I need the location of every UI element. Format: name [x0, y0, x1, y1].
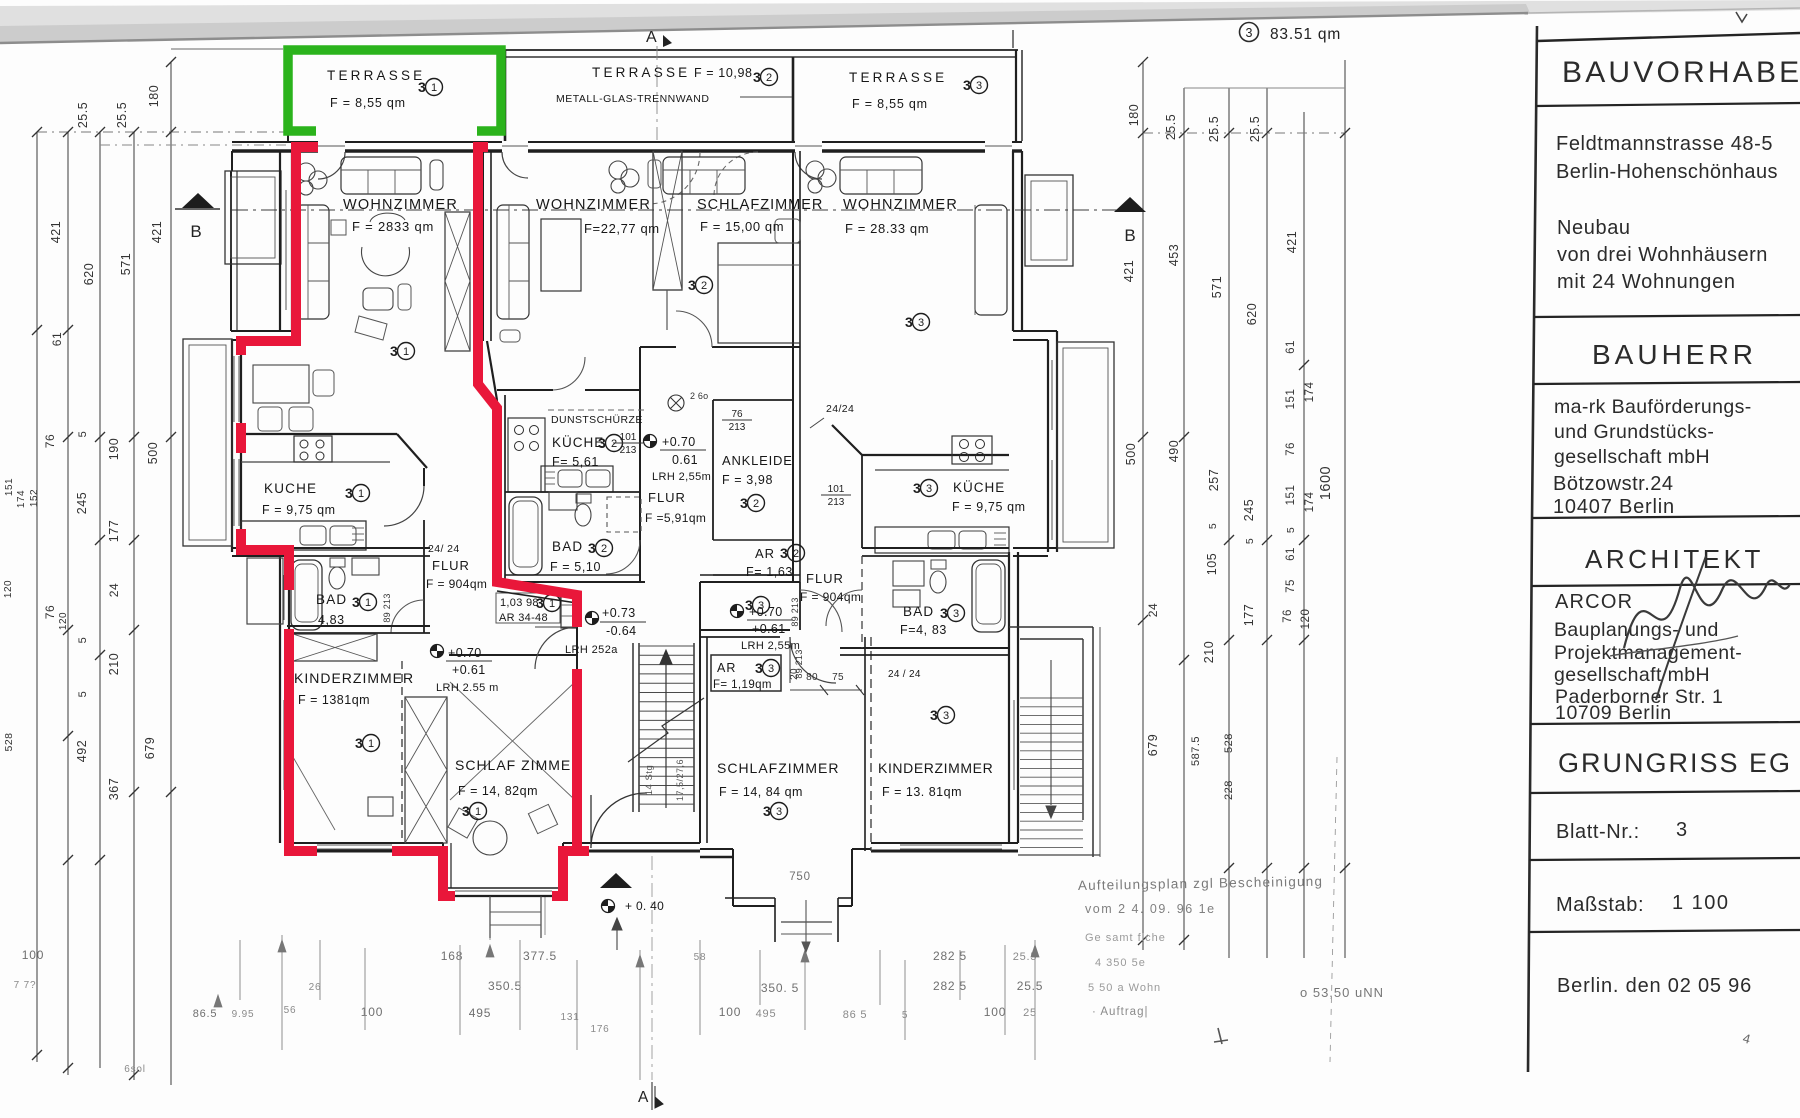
svg-text:KÜCHE: KÜCHE	[552, 435, 604, 450]
bext12	[879, 950, 881, 1005]
svg-text:3: 3	[753, 69, 761, 85]
apt1-stair bottom wall inner	[563, 850, 700, 853]
svg-text:495: 495	[756, 1008, 777, 1020]
wall kz1-sz1 dashed	[401, 661, 403, 843]
wz1 sofa div1	[367, 170, 369, 194]
svg-text:174: 174	[16, 490, 27, 508]
stair tread 9	[639, 729, 694, 731]
wz1 plant c3	[299, 181, 313, 195]
svg-text:3: 3	[1676, 819, 1688, 841]
right jog wall lower a	[1013, 547, 1057, 549]
svg-text:213: 213	[729, 422, 746, 433]
apt1 bottom window a2	[317, 848, 392, 850]
wz1 sofa left div1	[308, 242, 329, 244]
dim 101-213 flur2	[613, 432, 643, 456]
stair tread 3	[639, 673, 694, 675]
svg-text:2: 2	[753, 498, 759, 510]
building top wall inner seg3	[822, 149, 985, 152]
flur3 west wall	[799, 582, 801, 630]
rstair right rail	[1082, 639, 1084, 820]
circled 3 corridor	[745, 597, 770, 614]
tick r21	[1299, 863, 1309, 873]
circled 2 kueche2	[598, 435, 623, 452]
svg-text:24: 24	[1146, 603, 1160, 617]
rstair tread 3	[1020, 723, 1083, 725]
title block line below 10407 Berlin	[1532, 516, 1800, 518]
right window mid 2	[1051, 460, 1053, 540]
kz3 bottom window 2	[900, 848, 1002, 850]
right jog wall a	[1013, 330, 1057, 332]
svg-text:3: 3	[588, 540, 596, 556]
bad2 door arc	[606, 540, 640, 574]
wz1 sofa left line	[307, 205, 309, 319]
bad3 door arc	[826, 590, 862, 626]
terrace 1 left wall	[287, 50, 289, 141]
svg-text:Projektmanagement-: Projektmanagement-	[1554, 642, 1742, 664]
sz3 top wall a	[700, 629, 790, 631]
wz2 plant c3	[611, 179, 625, 193]
stove1 c2	[316, 440, 324, 448]
bad1 east wall	[423, 556, 425, 633]
svg-text:177: 177	[1242, 604, 1256, 626]
circled 2 ar2	[780, 545, 805, 562]
circled 1 wz1	[390, 343, 415, 360]
kueche3 west wall	[861, 455, 863, 548]
svg-text:mit 24 Wohnungen: mit 24 Wohnungen	[1557, 271, 1736, 293]
left loggia window bay inner	[231, 177, 275, 258]
tick l9	[63, 432, 73, 442]
svg-text:76: 76	[1285, 442, 1297, 456]
apt1 entry leaf	[535, 626, 577, 628]
rstair tread 9	[1020, 776, 1083, 778]
rstair tread 0	[1020, 697, 1083, 699]
tick l19	[129, 535, 139, 545]
apt1 bay left wall	[442, 843, 444, 896]
left balcony outline inner	[189, 345, 226, 540]
building top wall inner seg1	[345, 149, 502, 152]
rstair tread 5	[1020, 741, 1083, 743]
svg-text:3: 3	[740, 495, 748, 511]
svg-text:Bötzowstr.24: Bötzowstr.24	[1553, 473, 1674, 495]
svg-text:3: 3	[976, 80, 982, 92]
level symbol apt1	[431, 645, 444, 658]
loggia chair3	[313, 370, 334, 396]
rstair tread 7	[1020, 759, 1083, 761]
tick r2	[1179, 128, 1189, 138]
wz2 south wall b	[585, 389, 640, 391]
svg-text:76: 76	[731, 409, 743, 420]
bad3 sink	[893, 590, 920, 607]
bext17	[489, 896, 491, 940]
stove2 c3	[515, 442, 524, 451]
hw mark 1	[1214, 1028, 1228, 1044]
sz1 chair1	[448, 808, 478, 838]
left jog wall lower b	[232, 555, 289, 557]
wz2 sofa top	[663, 157, 745, 194]
title block line below Massstab	[1529, 930, 1800, 932]
flur3 2424 leader	[810, 418, 824, 428]
terrace door arc apt2	[502, 152, 528, 178]
section B left arrow	[182, 193, 214, 208]
stair tread 13	[639, 766, 694, 768]
bext11	[804, 945, 806, 1030]
terrace door arc apt2b dashed	[648, 152, 700, 204]
flur1 east wall	[423, 520, 425, 556]
svg-text:76: 76	[43, 605, 57, 619]
section B right arrow	[1114, 197, 1146, 212]
svg-text:421: 421	[150, 221, 164, 243]
bad3 west wall dashed	[861, 556, 863, 648]
stair tread 1	[639, 654, 694, 656]
svg-text:25.5: 25.5	[1207, 116, 1221, 142]
dim line right x1229	[1228, 88, 1230, 958]
svg-text:500: 500	[146, 442, 160, 464]
level symbol entrance	[602, 900, 615, 913]
svg-text:AR 34-48: AR 34-48	[499, 612, 548, 624]
sz3 door arc	[790, 637, 836, 683]
small mark top right	[1736, 12, 1747, 22]
kueche3 south wall a	[862, 547, 1009, 549]
svg-text:KINDERZIMMER: KINDERZIMMER	[878, 760, 993, 776]
dim line right x1267	[1266, 88, 1268, 958]
svg-text:LRH 2.55 m: LRH 2.55 m	[436, 682, 499, 694]
bad2 south wall b	[505, 581, 645, 583]
kz3 top wall b	[840, 654, 1009, 656]
dim line right x1143	[1142, 62, 1144, 950]
left jog wall lower a	[232, 547, 289, 549]
terrace 3 right wall inner	[1021, 50, 1023, 141]
stair tread 2	[639, 664, 694, 666]
svg-text:176: 176	[590, 1024, 609, 1035]
stair left rail a	[632, 643, 634, 812]
apt1 bay left wall2	[450, 843, 452, 888]
tick l14	[63, 855, 73, 865]
svg-text:1: 1	[431, 82, 437, 94]
bad3 bathtub	[972, 560, 1005, 632]
sz3 door leaf	[789, 637, 791, 683]
svg-text:+0.73: +0.73	[602, 606, 636, 620]
right facade mid inner	[1047, 340, 1049, 552]
apt1 bay front inner	[443, 895, 563, 897]
bad2 shower dashed	[607, 497, 641, 532]
section line BB	[232, 209, 1143, 211]
left room wall upper inner	[291, 151, 293, 331]
svg-text:76: 76	[1282, 609, 1294, 623]
svg-text:17,5/27,6: 17,5/27,6	[675, 759, 685, 801]
wall apt1-apt2 inner	[490, 151, 492, 341]
kueche3 basin1	[928, 531, 955, 549]
rstair tread 6	[1020, 750, 1083, 752]
svg-text:DUNSTSCHÜRZE: DUNSTSCHÜRZE	[551, 414, 643, 426]
svg-text:SCHLAFZIMMER: SCHLAFZIMMER	[697, 197, 823, 213]
architect signature stroke 1	[1624, 578, 1790, 648]
svg-text:TERRASSE: TERRASSE	[592, 65, 690, 80]
left loggia outer wall	[230, 171, 232, 331]
apt1 bottom wall outer a	[289, 842, 443, 844]
wz2 sofa left div2	[509, 280, 529, 282]
svg-text:89 213: 89 213	[790, 597, 800, 626]
kitchen1 counter bottom	[241, 461, 390, 463]
right jog wall lower a2	[1013, 555, 1048, 557]
kitchen1 east wall	[423, 468, 425, 486]
dim line right x1184	[1183, 88, 1185, 950]
entrance arrowhead	[612, 918, 622, 930]
svg-text:151: 151	[1285, 485, 1297, 506]
left window mid 2b	[238, 459, 240, 526]
svg-text:+0.70: +0.70	[662, 435, 696, 449]
svg-text:2: 2	[611, 438, 617, 450]
svg-text:F = 14, 82qm: F = 14, 82qm	[458, 784, 538, 798]
bext16	[1034, 940, 1036, 1060]
svg-text:ARCHITEKT: ARCHITEKT	[1585, 544, 1764, 574]
svg-text:Feldtmannstrasse 48-5: Feldtmannstrasse 48-5	[1556, 133, 1773, 155]
svg-text:3: 3	[598, 435, 606, 451]
dim tick 80-75b	[856, 685, 864, 695]
title block line below Wohnungen	[1534, 315, 1800, 317]
svg-text:89 213: 89 213	[382, 593, 392, 622]
svg-text:3: 3	[918, 317, 924, 329]
svg-text:25.5: 25.5	[1017, 979, 1044, 993]
level symbol hall	[586, 612, 599, 625]
tick r23	[1179, 935, 1189, 945]
tick r16	[1138, 615, 1148, 625]
svg-text:F = 8,55 qm: F = 8,55 qm	[852, 97, 928, 111]
svg-text:FLUR: FLUR	[806, 571, 844, 586]
apt2 wardrobe X	[653, 151, 682, 290]
bext5	[459, 945, 461, 1035]
stairhall north wall a	[497, 584, 577, 596]
stair tread 0	[639, 645, 694, 647]
kueche3 basin2	[959, 531, 986, 549]
sz3 top wall b	[700, 636, 780, 638]
apt3 bottom wall inner a	[700, 856, 733, 858]
apt3 porch step1	[781, 933, 832, 935]
svg-text:282 5: 282 5	[933, 949, 967, 963]
apt1 bay window 1	[455, 890, 552, 892]
tick l1	[32, 127, 42, 137]
dim 101-213 flur3	[821, 484, 851, 508]
stair tread 12	[639, 757, 694, 759]
svg-text:421: 421	[1285, 231, 1299, 253]
building top wall outer seg0	[232, 141, 318, 143]
wz1 plant c2	[309, 171, 327, 189]
stair tread 10	[639, 738, 694, 740]
svg-text:FLUR: FLUR	[432, 558, 470, 573]
circled 3 sz3	[763, 803, 788, 820]
tick r17	[1179, 655, 1189, 665]
kueche2 south wall	[505, 491, 640, 493]
architect signature stroke 3	[1610, 636, 1738, 656]
circled 3 bad3	[940, 605, 965, 622]
svg-text:Berlin. den 02 05 96: Berlin. den 02 05 96	[1557, 975, 1752, 997]
svg-text:495: 495	[469, 1006, 491, 1020]
svg-text:257: 257	[1207, 469, 1221, 491]
ar1 label box	[496, 593, 560, 623]
svg-text:1: 1	[475, 806, 481, 818]
svg-text:174: 174	[1304, 492, 1316, 513]
bext7	[576, 960, 578, 1050]
svg-text:367: 367	[107, 778, 121, 800]
svg-text:GRUNGRISS EG: GRUNGRISS EG	[1558, 748, 1792, 778]
level symbol flur2	[644, 435, 657, 448]
terrace door sill 0	[318, 145, 345, 147]
rstair tread 12	[1020, 803, 1083, 805]
tick l22	[166, 787, 176, 797]
apt2 wardrobe wall stub	[666, 290, 668, 330]
stair break line	[628, 698, 704, 762]
svg-text:1: 1	[358, 488, 364, 500]
left small balcony	[247, 558, 283, 624]
bext10	[759, 950, 761, 1005]
svg-text:61: 61	[50, 332, 64, 346]
rstair outer wall b	[1099, 627, 1101, 857]
svg-text:KÜCHE: KÜCHE	[953, 480, 1005, 495]
svg-text:0.61: 0.61	[672, 453, 698, 467]
svg-text:4,83: 4,83	[318, 613, 345, 627]
dim line left x68	[67, 132, 69, 1075]
svg-text:Neubau: Neubau	[1557, 217, 1631, 239]
wz2 south wall a	[497, 389, 553, 391]
apt1 bottom wall inner a	[289, 850, 443, 853]
svg-text:3: 3	[913, 480, 921, 496]
bad1 top wall b	[289, 555, 430, 557]
svg-text:26: 26	[309, 982, 322, 993]
apt1 entry door arc	[535, 627, 577, 669]
bext9	[699, 940, 701, 1035]
svg-text:3: 3	[536, 595, 544, 611]
dim line right x1345	[1344, 60, 1346, 958]
ar2 bottom wall b	[705, 581, 793, 583]
right jog wall b	[1013, 339, 1048, 341]
tick r11	[1299, 360, 1309, 370]
tick r12	[1299, 535, 1309, 545]
dim ext line y49	[171, 48, 283, 50]
tick l10	[129, 432, 139, 442]
title block line below GRUNGRISS EG	[1530, 791, 1800, 793]
svg-text:BAD: BAD	[903, 604, 934, 619]
bad1 door arc	[391, 600, 424, 633]
kz3 top wall a	[840, 647, 1009, 649]
flur2 west wall	[639, 347, 641, 582]
tick r6	[1138, 57, 1148, 67]
kitchen1 top wall	[241, 433, 397, 435]
dim ext line right y88	[1184, 87, 1345, 89]
building top wall inner seg0	[232, 149, 318, 152]
svg-text:282 5: 282 5	[933, 979, 967, 993]
bad2 bathtub	[509, 497, 542, 575]
sz2 bed line	[718, 264, 800, 266]
title block line top	[1537, 33, 1800, 41]
svg-text:101: 101	[828, 484, 845, 495]
apt3 bay front outer l	[725, 897, 775, 899]
title block line below 10709 Berlin	[1530, 722, 1800, 724]
stove1 c3	[300, 452, 308, 460]
svg-text:ARCOR: ARCOR	[1555, 591, 1633, 613]
entrance door arc	[591, 793, 646, 848]
apt1 bay right wall	[562, 843, 564, 896]
terrace top edge line	[285, 49, 1018, 51]
svg-text:B: B	[1124, 226, 1135, 245]
svg-text:B: B	[190, 222, 201, 241]
right window lower	[1013, 700, 1015, 790]
wz3 sofa right line	[974, 205, 976, 315]
svg-text:F=22,77 qm: F=22,77 qm	[584, 221, 660, 236]
left room window upper	[285, 190, 287, 310]
svg-text:TERRASSE: TERRASSE	[849, 70, 947, 85]
level flur2 line	[660, 449, 706, 451]
bad1 top wall a	[289, 547, 430, 549]
tick r5	[1340, 128, 1350, 138]
svg-text:· Auftrag|: · Auftrag|	[1092, 1006, 1148, 1018]
kz3 bottom window 1	[900, 844, 1002, 846]
svg-text:LRH 252a: LRH 252a	[565, 644, 618, 656]
loggia table	[253, 365, 309, 403]
left window mid 1a	[233, 356, 235, 422]
svg-text:3: 3	[755, 660, 763, 676]
rstair outer wall a	[1092, 627, 1094, 857]
apt3 bay front inner r	[838, 905, 852, 907]
loggia chair2	[289, 407, 313, 431]
svg-text:25.5: 25.5	[76, 102, 90, 128]
kitchen1 grid1	[352, 527, 364, 529]
svg-text:190: 190	[107, 438, 121, 460]
circled 2 sz2	[688, 277, 713, 294]
svg-text:F = 8,55 qm: F = 8,55 qm	[330, 96, 406, 110]
architect signature stroke 2	[1656, 556, 1706, 700]
title block line below ARCHITEKT	[1532, 584, 1800, 586]
stove1 c4	[316, 452, 324, 460]
svg-text:24/24: 24/24	[826, 403, 854, 415]
svg-text:152: 152	[29, 489, 40, 507]
kueche3 top wall	[862, 454, 1009, 456]
section AA line top	[656, 46, 658, 140]
svg-text:F = 9,75 qm: F = 9,75 qm	[952, 500, 1026, 514]
terrace top edge inner line	[505, 56, 1016, 58]
stair up arrowhead	[660, 650, 672, 664]
ar1 shelf1	[561, 604, 577, 606]
circled 2 terrasse2	[753, 69, 778, 86]
svg-text:5: 5	[77, 637, 89, 644]
wall apt2-apt3 inner	[799, 151, 801, 340]
barw3	[801, 950, 809, 962]
circled 1 terrasse1	[418, 79, 443, 96]
bext14	[959, 950, 961, 1000]
section A bottom flag	[655, 1086, 663, 1108]
bad2 wc bowl	[575, 504, 591, 526]
building top wall outer seg1	[345, 141, 502, 143]
svg-text:3: 3	[768, 663, 774, 675]
rstair tread 2	[1020, 715, 1083, 717]
wz2 side chair	[648, 160, 661, 188]
svg-text:von drei Wohnhäusern: von drei Wohnhäusern	[1557, 244, 1768, 266]
apt1 bottom window a1	[317, 844, 392, 846]
apt3 porch bottom	[781, 921, 832, 923]
rstair down arrow	[1050, 660, 1052, 805]
apt3 bottom wall outer b	[852, 848, 871, 850]
terrace door arc apt3b dashed	[714, 152, 758, 196]
green terrace outline	[288, 50, 501, 131]
ankleide west wall	[712, 400, 714, 540]
svg-text:3: 3	[462, 803, 470, 819]
building top wall outer seg4	[1012, 141, 1022, 143]
section AA line bottom	[651, 856, 653, 1080]
svg-text:2 6o: 2 6o	[690, 391, 708, 401]
svg-text:1: 1	[403, 346, 409, 358]
svg-text:24/ 24: 24/ 24	[428, 543, 460, 555]
svg-text:+0.70: +0.70	[749, 605, 783, 619]
sz1 wardrobe X2	[405, 770, 447, 843]
wz1 armchair side	[430, 160, 443, 190]
